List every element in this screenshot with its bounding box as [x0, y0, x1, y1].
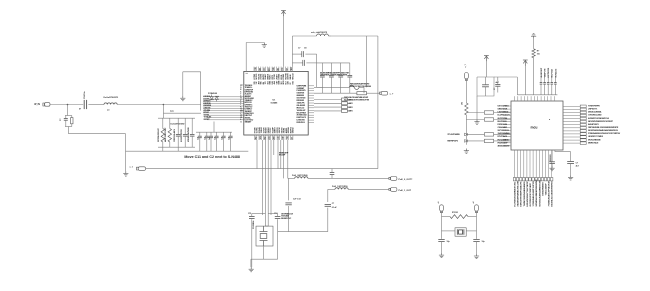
varistor RV1: [71, 118, 73, 124]
wire: [314, 86, 349, 88]
resistor R22: [342, 106, 348, 109]
ferrite FB2: [349, 85, 359, 90]
wire: [524, 65, 526, 95]
svg-text:C11: C11: [248, 213, 251, 215]
connector PoE_0_OUT: [389, 177, 397, 181]
wire: [468, 133, 485, 135]
ground up: [531, 34, 536, 39]
resistor R15: [450, 215, 468, 219]
wire: [250, 259, 252, 267]
svg-text:1uF: 1uF: [228, 137, 230, 140]
wire bottom drop 8: [280, 140, 282, 169]
ground: [180, 96, 185, 101]
wire cap bank bus: [317, 62, 350, 64]
capacitor C10: [325, 204, 331, 206]
IC U1 bottom pins: [255, 135, 293, 140]
wire bottom drop 5: [270, 140, 272, 215]
svg-text:1uF: 1uF: [214, 137, 216, 140]
MCU U3 body: [511, 101, 563, 150]
capacitor C51: [549, 162, 555, 164]
svg-text:CKAGHIBY: CKAGHIBY: [498, 126, 508, 129]
svg-text:4u7: 4u7: [576, 165, 579, 168]
svg-text:OM8: OM8: [291, 67, 293, 71]
svg-text:NONCN630US64UGA9O8E621DGI: NONCN630US64UGA9O8E621DGI: [588, 129, 618, 132]
wire usb top: [291, 36, 293, 67]
wire: [494, 76, 517, 78]
MCU right pin label boxes: [580, 105, 586, 108]
capacitor C10 decoupling: [321, 63, 323, 76]
ferrite FB3: [357, 92, 367, 95]
svg-text:HBTRPIGF5: HBTRPIGF5: [447, 140, 458, 142]
svg-text:XASKNSFNDNB17I0LC0B: XASKNSFNDNB17I0LC0B: [517, 181, 520, 207]
node A junction: [67, 104, 69, 106]
wire: [554, 150, 556, 152]
wire: [125, 151, 127, 171]
wire: [177, 147, 179, 151]
capacitor C41: [544, 77, 546, 83]
wire: [88, 104, 104, 106]
svg-text:4HM2PUBP: 4HM2PUBP: [540, 67, 543, 77]
wire gnd rail bottom: [278, 231, 328, 233]
svg-text:NKVFMVF08223X5CSCPA7P: NKVFMVF08223X5CSCPA7P: [588, 120, 614, 123]
wire: [359, 86, 364, 88]
capacitor C7: [292, 53, 301, 55]
svg-text:C?: C?: [60, 118, 62, 121]
IC U1 top pins: [254, 67, 292, 72]
wire bottom drop 6: [273, 140, 275, 155]
svg-text:4N25GAM2HY: 4N25GAM2HY: [498, 144, 511, 147]
capacitor C32: [209, 136, 213, 138]
capacitor C8: [292, 62, 302, 64]
wire: [314, 102, 342, 104]
MCU top pins: [515, 96, 555, 101]
ground: [439, 253, 444, 258]
resistor R10 10k: [465, 103, 468, 115]
svg-text:C7: C7: [298, 48, 300, 50]
svg-text:usb_shld/150375: usb_shld/150375: [311, 32, 328, 34]
capacitor C30: [198, 136, 202, 138]
capacitor C11 decoupling: [330, 63, 332, 76]
svg-text:097EFT: 097EFT: [204, 119, 211, 121]
svg-text:7Y28BLK6AXU0PVIEOVM: 7Y28BLK6AXU0PVIEOVM: [548, 181, 551, 206]
svg-text:1BPX8U52BL123G9SIKI2K5M51PR: 1BPX8U52BL123G9SIKI2K5M51PR: [588, 127, 619, 129]
wire bottom drop 4: [267, 140, 269, 226]
resistor R46: [161, 129, 164, 143]
wire: [533, 58, 535, 95]
svg-text:OF8V06V: OF8V06V: [550, 154, 552, 162]
power +3V3 mcu2: [523, 60, 528, 66]
wire rail: [196, 131, 232, 133]
ground: [123, 171, 128, 176]
svg-text:mcu: mcu: [531, 126, 538, 130]
svg-text:R?/1M: R?/1M: [452, 212, 458, 214]
svg-text:D?/BAV99: D?/BAV99: [208, 92, 217, 95]
svg-text:IO56DPVRPDD: IO56DPVRPDD: [181, 128, 183, 142]
svg-text:22R1: 22R1: [349, 111, 353, 113]
wire rail lower: [158, 146, 195, 148]
wire: [442, 230, 456, 232]
svg-text:W_IN: W_IN: [34, 104, 40, 106]
inductor L3: [104, 103, 117, 105]
IC U1 right pins: [308, 86, 314, 123]
wire: [265, 225, 268, 227]
svg-text:PI63KRAGP: PI63KRAGP: [498, 141, 509, 144]
power +3V3 top: [281, 11, 286, 17]
ferrite FB1 usb_shield: [317, 34, 329, 36]
wire: [67, 105, 69, 116]
svg-text:22R1: 22R1: [349, 107, 353, 109]
wire: [327, 189, 329, 202]
svg-text:K9UMLSLC58GNVIH8FX0: K9UMLSLC58GNVIH8FX0: [552, 181, 554, 207]
wire: [162, 113, 164, 118]
svg-text:1uF: 1uF: [209, 137, 211, 140]
svg-text:PoE_0_OUT?: PoE_0_OUT?: [399, 179, 414, 181]
crystal X2 box: [256, 226, 273, 246]
svg-text:DoGoNT0/GPD: DoGoNT0/GPD: [104, 97, 119, 99]
svg-text:EM01VIYP2KBP7A6EUFX: EM01VIYP2KBP7A6EUFX: [520, 181, 523, 206]
svg-text:T1R8YFXPFK: T1R8YFXPFK: [588, 106, 600, 108]
svg-text:XIVN5LKG: XIVN5LKG: [555, 68, 557, 77]
resistor R47: [168, 129, 171, 143]
svg-text:9S7Y2FCFO3: 9S7Y2FCFO3: [498, 130, 510, 132]
capacitor C42: [547, 77, 549, 83]
svg-text:190: 190: [292, 137, 294, 140]
wire bottom drop 9: [283, 140, 285, 178]
svg-text:2A3: 2A3: [277, 68, 280, 71]
capacitor C43: [551, 77, 553, 83]
MCU left pins: [503, 106, 511, 146]
ground: [249, 267, 254, 272]
inductor L5: [295, 177, 308, 179]
capacitor C40: [540, 77, 542, 83]
wire PoE1: [328, 188, 335, 190]
svg-text:53MDGH2K: 53MDGH2K: [498, 109, 508, 111]
node TX junction: [163, 104, 165, 106]
resistor R30: [484, 111, 493, 114]
svg-text:E3CPKCBE: E3CPKCBE: [548, 67, 550, 77]
svg-text:PR7: PR7: [256, 136, 258, 139]
wire: [441, 212, 443, 217]
capacitor C31: [205, 136, 209, 138]
ground: [550, 166, 555, 171]
wire: [465, 79, 467, 103]
svg-text:x1: x1: [438, 202, 440, 204]
ground: [464, 149, 469, 154]
ground: [568, 175, 573, 180]
svg-text:RMLO3: RMLO3: [292, 73, 294, 79]
capacitor C12: [275, 217, 281, 219]
wire: [314, 92, 357, 94]
svg-text:6LIFXDT1M: 6LIFXDT1M: [498, 118, 508, 120]
capacitor C44: [554, 77, 556, 83]
svg-text:CRNFS3L48FS: CRNFS3L48FS: [173, 128, 176, 142]
svg-text:DPVP0NO2: DPVP0NO2: [498, 136, 509, 138]
svg-text:L9I2TM2EDD: L9I2TM2EDD: [498, 112, 509, 114]
wire: [251, 258, 278, 260]
crystal X3: [457, 229, 464, 234]
svg-text:M3UMLM8VNMD: M3UMLM8VNMD: [188, 127, 190, 142]
svg-text:0.1uF: 0.1uF: [332, 207, 338, 209]
resistor R21: [342, 102, 348, 105]
power +3V3 mcu: [484, 56, 489, 62]
MCU right pins: [563, 106, 580, 143]
diode D1 BAV99: [210, 95, 220, 102]
svg-text:10k: 10k: [462, 102, 464, 105]
ground: [474, 120, 479, 125]
svg-text:TH8M7VE93N6HBS4B405: TH8M7VE93N6HBS4B405: [523, 181, 526, 207]
wire: [348, 188, 389, 190]
wire gnd rail: [126, 150, 249, 152]
MCU bottom pin boxes: [513, 178, 515, 181]
svg-text:DoGoNTO/GND: DoGoNTO/GND: [171, 124, 185, 126]
svg-text:172NVD4RUV69PFYVPYD: 172NVD4RUV69PFYVPYD: [532, 181, 535, 207]
svg-text:1uF: 1uF: [205, 137, 207, 140]
svg-text:284: 284: [259, 68, 262, 71]
svg-text:F7BIVBA929VLYMHG1CXVFCNFFSV: F7BIVBA929VLYMHG1CXVFCNFFSV: [588, 132, 621, 135]
capacitor C16 series: [84, 100, 86, 109]
wire PoE gnd rail long: [146, 168, 378, 170]
svg-text:C?: C?: [494, 88, 496, 90]
svg-text:O94N3: O94N3: [292, 128, 295, 134]
svg-text:UKSP87YCFMK2: UKSP87YCFMK2: [588, 136, 604, 138]
capacitor C60: [438, 240, 444, 242]
wire mcu top bus: [517, 94, 557, 96]
capacitor C12 decoupling: [340, 63, 342, 76]
wire decoupling gnd rail: [317, 86, 323, 88]
wire: [314, 99, 342, 101]
svg-text:657C80GXFST909T4B27: 657C80GXFST909T4B27: [529, 182, 532, 207]
svg-text:C16/10n: C16/10n: [84, 91, 86, 99]
wire: [288, 178, 290, 200]
svg-text:0E57YS23: 0E57YS23: [552, 69, 554, 77]
connector PoE_1_OUT: [389, 188, 397, 192]
svg-text:DLUTEGDG7Y: DLUTEGDG7Y: [498, 115, 511, 117]
svg-text:3S4X30DMMN: 3S4X30DMMN: [498, 132, 511, 135]
wire bottom drop 3: [264, 140, 266, 226]
svg-text:22R1: 22R1: [349, 103, 353, 105]
capacitor C35: [229, 136, 233, 138]
capacitor C11: [249, 217, 255, 219]
wire: [476, 96, 478, 120]
svg-text:A8V4PG1EY: A8V4PG1EY: [588, 123, 600, 126]
svg-text:D814CIL4M06A: D814CIL4M06A: [588, 111, 602, 114]
wire: [283, 16, 285, 67]
svg-text:PoE_1_OUT: PoE_1_OUT: [399, 190, 412, 192]
svg-text:K36: K36: [292, 81, 294, 84]
svg-text:HU76IXGKO42R3EXT26G: HU76IXGKO42R3EXT26G: [513, 181, 516, 206]
wire: [65, 126, 72, 128]
capacitor C31: [497, 77, 499, 85]
svg-text:X1/25MHz: X1/25MHz: [253, 221, 255, 229]
wire PoE0: [288, 177, 295, 179]
MCU bottom pins: [515, 150, 552, 178]
capacitor C22: [183, 135, 188, 137]
wire: [485, 61, 487, 78]
wire: [367, 92, 380, 94]
resistor R33: [484, 139, 493, 142]
wire bottom drop 1: [256, 140, 258, 169]
wire bottom drop 2: [262, 140, 264, 215]
svg-text:1uF C13: 1uF C13: [293, 198, 302, 200]
wire: [125, 134, 127, 152]
svg-text:PD7DGBBH0: PD7DGBBH0: [498, 139, 510, 141]
wire: [551, 150, 553, 162]
resistor R20: [342, 98, 348, 101]
crystal X3 box: [455, 228, 466, 236]
svg-text:22R1: 22R1: [349, 99, 353, 101]
svg-text:R0RU5O0: R0RU5O0: [297, 122, 306, 124]
svg-text:NUN6FYHC: NUN6FYHC: [281, 218, 292, 220]
IC U1 S-N488 body: [244, 71, 308, 135]
svg-text:EHV915C8: EHV915C8: [498, 121, 508, 123]
wire: [465, 115, 467, 145]
resistor R31: [484, 118, 493, 121]
svg-text:6V892P6Y2OND96FYU4: 6V892P6Y2OND96FYU4: [588, 117, 610, 120]
svg-text:R?: R?: [537, 51, 539, 53]
svg-text:397RSHRIG6VC: 397RSHRIG6VC: [158, 128, 160, 142]
wire bottom drop 7: [277, 140, 279, 169]
svg-text:K60LRR9KE0: K60LRR9KE0: [542, 181, 544, 195]
capacitor C34: [222, 136, 226, 138]
svg-text:48NC23N3YHBP: 48NC23N3YHBP: [164, 127, 167, 142]
capacitor C30 bulk: [482, 85, 489, 87]
capacitor C61: [473, 240, 479, 242]
svg-text:x2: x2: [473, 202, 475, 204]
wire: [50, 104, 83, 106]
capacitor C21: [176, 135, 181, 137]
resistor R11 10k: [532, 49, 535, 58]
wire: [466, 112, 484, 114]
svg-text:F0IFKVG56: F0IFKVG56: [498, 124, 508, 126]
capacitor C17 shunt: [65, 115, 72, 117]
wire inner loop: [366, 36, 368, 87]
ground: [474, 254, 479, 259]
wire: [117, 104, 201, 106]
wire: [314, 110, 342, 112]
svg-text:O7817BCL0ISD: O7817BCL0ISD: [588, 115, 602, 117]
wire: [182, 72, 184, 96]
wire: [245, 43, 247, 72]
svg-text:YPL2UT2ARB: YPL2UT2ARB: [447, 133, 460, 136]
svg-text:MOXUXB900E: MOXUXB900E: [588, 139, 601, 141]
crystal X2: [260, 226, 268, 246]
wire: [162, 105, 164, 114]
svg-text:MER7V0LM: MER7V0LM: [588, 142, 599, 144]
svg-text:S-N488: S-N488: [271, 102, 279, 105]
capacitor C13: [285, 203, 291, 205]
svg-text:Move C11 and C2 next to S-N488: Move C11 and C2 next to S-N488: [184, 155, 240, 159]
svg-text:10k: 10k: [537, 54, 540, 56]
capacitor C23: [190, 135, 195, 137]
svg-text:4u7: 4u7: [496, 81, 499, 84]
wire: [314, 106, 342, 108]
capacitor C50: [567, 162, 574, 164]
svg-text:SBABIT: SBABIT: [245, 121, 252, 124]
svg-text:1uF: 1uF: [198, 137, 200, 140]
wire loop: [477, 77, 494, 96]
capacitor C33: [215, 136, 219, 138]
wire rail: [158, 117, 195, 119]
wire: [252, 213, 266, 215]
capacitor C13 decoupling: [349, 63, 351, 76]
svg-text:HXHVMO0H67T6LXTACIP: HXHVMO0H67T6LXTACIP: [526, 181, 529, 207]
ground: [262, 43, 267, 48]
wire: [533, 38, 535, 48]
wire bottom drop 10: [287, 140, 289, 178]
wire bus RX lines: [203, 97, 244, 120]
svg-text:IKCDIP: IKCDIP: [279, 155, 286, 157]
resistor R32: [484, 133, 493, 136]
wire right loop: [377, 36, 379, 169]
wire: [308, 177, 389, 179]
inductor L6: [335, 188, 348, 190]
svg-text:NGVS5CK3N82ARM05Y4M: NGVS5CK3N82ARM05Y4M: [538, 180, 541, 206]
svg-text:PoE_1/NTC/R50: PoE_1/NTC/R50: [332, 186, 348, 188]
svg-text:1uF: 1uF: [221, 137, 223, 140]
svg-text:EN7: EN7: [265, 136, 267, 139]
resistor R23: [342, 109, 348, 112]
wire: [316, 54, 318, 87]
svg-text:LRPS37Y1: LRPS37Y1: [588, 109, 598, 111]
svg-text:u_1: u_1: [130, 166, 133, 168]
connector U_2: [380, 91, 388, 95]
svg-text:C8: C8: [304, 48, 306, 50]
wire: [441, 217, 443, 239]
svg-text:T49SFVYB: T49SFVYB: [544, 68, 547, 77]
svg-text:UK71G79B51: UK71G79B51: [498, 106, 510, 108]
svg-text:PoE_0/NTC/R40: PoE_0/NTC/R40: [292, 174, 308, 177]
svg-text:T341131B2P: T341131B2P: [544, 183, 547, 196]
svg-text:SXNRNHU8RKATB9MN2MY: SXNRNHU8RKATB9MN2MY: [535, 179, 538, 207]
capacitor C9 series: [330, 173, 335, 175]
